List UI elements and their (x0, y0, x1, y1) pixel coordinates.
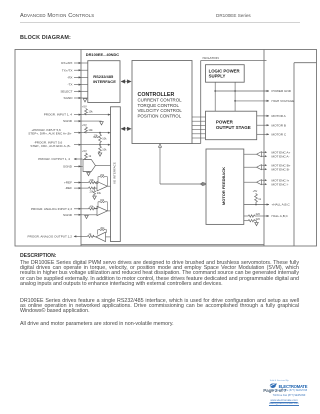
svg-text:+5V: +5V (82, 123, 87, 127)
pin labels MOT ENC I+/I- (272, 178, 290, 186)
svg-text:RX+/RX: RX+/RX (61, 61, 72, 65)
svg-text:+5V: +5V (82, 149, 87, 153)
ground (signal, below SGND) (83, 99, 87, 102)
svg-text:SUPPLY: SUPPLY (209, 73, 226, 78)
drive outline box DR100EE (81, 50, 264, 247)
svg-text:PROGR. OUTPUT 1, 4: PROGR. OUTPUT 1, 4 (38, 157, 70, 161)
header rule (20, 21, 300, 24)
svg-text:20k: 20k (90, 178, 95, 182)
figure frame (15, 50, 317, 247)
wire + pin POWER GND (215, 89, 291, 93)
svg-text:INTERFACE: INTERFACE (93, 79, 116, 84)
pin SELECT (60, 89, 87, 93)
svg-text:40k: 40k (90, 204, 95, 208)
svg-text:DR100EE...40NDC: DR100EE...40NDC (86, 52, 119, 57)
drive title DR100EE...40NDC (86, 52, 119, 57)
svg-text:MOTOR B: MOTOR B (272, 123, 286, 127)
wire + pin MOTOR C (257, 132, 287, 136)
pin PROGR. OUTPUT 1-4 (38, 157, 82, 161)
svg-text:1k: 1k (258, 197, 261, 201)
svg-text:10k: 10k (102, 147, 107, 151)
svg-text:MOTOR A: MOTOR A (272, 114, 287, 118)
pin labels MOT ENC A+/A- (272, 150, 291, 158)
section heading (20, 35, 71, 41)
pin + wire -PROGR. INPUT 5,6 / STEP-, DIR-, AUX ENC A-,B- (30, 141, 110, 149)
controller block (132, 61, 192, 144)
svg-text:I/O INTERFACE: I/O INTERFACE (113, 162, 117, 184)
svg-text:-RX: -RX (67, 76, 72, 80)
svg-text:20k: 20k (97, 191, 102, 195)
svg-text:PROGR. ANALOG OUTPUT 1,2: PROGR. ANALOG OUTPUT 1,2 (28, 235, 73, 239)
power output stage block (206, 111, 257, 140)
svg-text:POWER: POWER (216, 119, 234, 124)
footer stamp: Electromate (270, 380, 289, 382)
svg-text:PROGR. INPUT 1, 4: PROGR. INPUT 1, 4 (44, 113, 73, 117)
svg-text:10k: 10k (102, 136, 107, 140)
pin labels MOT ENC B+/B- (272, 163, 291, 171)
isolation label (203, 56, 219, 60)
I/O interface strip (111, 107, 121, 242)
svg-text:OUTPUT STAGE: OUTPUT STAGE (216, 125, 251, 130)
svg-text:CURRENT CONTROL: CURRENT CONTROL (138, 98, 183, 103)
svg-text:ISOLATION: ISOLATION (203, 56, 219, 60)
svg-text:+HALL A,B,C: +HALL A,B,C (272, 203, 291, 207)
+5V hall pull-up resistor 1k (253, 189, 262, 205)
bidirectional bus: interface to controller (121, 80, 131, 84)
op-amp U1 (REF differential amp) (97, 173, 111, 191)
description section (20, 253, 57, 259)
pin -TX (68, 83, 88, 87)
encoder receiver B (244, 164, 267, 170)
svg-text:SGND: SGND (63, 165, 73, 169)
svg-text:STEP+, DIR+, AUX ENC A+,B+: STEP+, DIR+, AUX ENC A+,B+ (28, 132, 72, 136)
wire: feedback to controller (via isolation) (158, 144, 206, 184)
right connector block (294, 63, 317, 246)
svg-text:-TX: -TX (68, 83, 73, 87)
gate drive bus controller to power stage (6 wires) (192, 117, 206, 138)
pin RX+/RX (61, 61, 88, 65)
wire + pin MOTOR B (257, 123, 286, 127)
svg-text:220: 220 (256, 212, 261, 216)
svg-text:SGND: SGND (63, 119, 73, 123)
svg-text:1k: 1k (88, 154, 91, 158)
svg-text:40k: 40k (100, 198, 105, 202)
svg-text:SGND: SGND (64, 96, 74, 100)
svg-text:+5V: +5V (82, 105, 87, 109)
ground (output driver) (87, 172, 91, 176)
svg-text:10k: 10k (94, 133, 99, 137)
svg-text:POWER GND: POWER GND (272, 89, 292, 93)
svg-text:SGND: SGND (63, 213, 73, 217)
hall filter resistor 220 to ground (244, 217, 261, 222)
svg-text:1k: 1k (89, 232, 92, 236)
open-collector output driver (83, 160, 111, 172)
wire + pin +HALL A,B,C (244, 203, 291, 207)
svg-text:MOTOR C: MOTOR C (272, 132, 287, 136)
pin + wire SGND (output stage) (63, 165, 82, 169)
svg-text:SELECT: SELECT (60, 89, 72, 93)
op-amp U2 (analog input amp) (97, 198, 111, 216)
wire + pin HIGH VOLTAGE (235, 99, 294, 103)
+5V pull-up 10k on input 1-4 (82, 105, 93, 116)
svg-text:-REF: -REF (65, 186, 72, 190)
encoder receiver A (244, 151, 267, 157)
20k to ground on op-amp U1 (93, 188, 102, 199)
bidirectional bus: I/O strip to controller (121, 127, 131, 131)
ground (hall filter) (255, 222, 259, 225)
pin + wire SGND (analog) (63, 213, 97, 217)
svg-text:MOT ENC I-: MOT ENC I- (272, 182, 289, 186)
pin + wire +REF with 20k (64, 178, 98, 185)
pin SGND (64, 96, 88, 100)
pin + wire +PROGR. INPUT 5,6 / STEP+, DIR+, AUX ENC A+,B+ (28, 128, 110, 136)
ground (analog input) (85, 215, 89, 218)
svg-text:VELOCITY CONTROL: VELOCITY CONTROL (138, 108, 183, 113)
header right: series name (216, 13, 251, 18)
isolation boundary (192, 61, 267, 144)
pin + wire -REF with 20k (65, 186, 97, 193)
pin + wire PROGR. ANALOG INPUT 2,3 with 40k (31, 204, 98, 211)
svg-text:20k: 20k (100, 173, 105, 177)
bidirectional marker on feedback wire at isolation (200, 182, 205, 185)
header left: company name (20, 13, 94, 19)
logic power supply block (206, 65, 245, 83)
svg-text:MOT ENC A-: MOT ENC A- (272, 154, 290, 158)
pin TX+/TX (62, 68, 88, 72)
svg-text:MOTOR FEEDBACK: MOTOR FEEDBACK (221, 167, 226, 205)
input termination network 10k/10k (93, 132, 107, 156)
junction dots on supply legs (214, 90, 236, 102)
wire + pin MOTOR A (257, 114, 287, 118)
+5V pull-up 1k on progr. output (82, 149, 92, 160)
svg-text:HALL A,B,C: HALL A,B,C (272, 214, 289, 218)
RS232/485 interface block (88, 61, 120, 103)
svg-text:HIGH VOLTAGE: HIGH VOLTAGE (272, 99, 295, 103)
pin + wire SGND (digital in) (63, 119, 101, 123)
+5V pull-up 10k on input 5,6 (82, 123, 93, 134)
svg-text:TX+/TX: TX+/TX (62, 68, 73, 72)
wire: supply left leg down to power stage (214, 82, 216, 111)
svg-text:STEP-, DIR-, AUX ENC A-,B-: STEP-, DIR-, AUX ENC A-,B- (30, 144, 70, 148)
svg-text:20k: 20k (100, 226, 105, 230)
svg-text:POSITION CONTROL: POSITION CONTROL (138, 114, 182, 119)
svg-text:+REF: +REF (64, 181, 72, 185)
svg-text:10k: 10k (88, 110, 93, 114)
motor feedback block (206, 149, 244, 224)
wire + series resistor 220 + pin HALL A,B,C (244, 212, 289, 218)
op-amp U3 (analog output buffer, facing left) (96, 226, 111, 242)
svg-text:+5V: +5V (253, 189, 258, 193)
svg-text:TORQUE CONTROL: TORQUE CONTROL (138, 103, 180, 108)
svg-text:10k: 10k (88, 128, 93, 132)
pin + wire PROGR. ANALOG OUTPUT 1,2 with 1k (28, 232, 96, 239)
svg-text:PROGR. ANALOG INPUT 2,3: PROGR. ANALOG INPUT 2,3 (31, 207, 72, 211)
wire: supply right leg down (234, 82, 236, 111)
encoder receiver I (244, 179, 267, 185)
pin + wire PROGR. INPUT 1-4 (44, 113, 111, 117)
svg-text:MOT ENC B-: MOT ENC B- (272, 167, 290, 171)
pin -RX (67, 76, 88, 80)
ground (digital in) (100, 122, 104, 125)
